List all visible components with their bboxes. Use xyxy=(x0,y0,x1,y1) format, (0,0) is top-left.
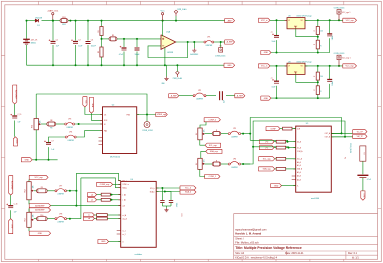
svg-text:SDA_b: SDA_b xyxy=(185,191,191,194)
capacitor input 10uF VCC_mgr xyxy=(274,80,279,82)
jumper JP2 xyxy=(193,95,195,97)
global label SDA_mgr xyxy=(206,149,222,153)
ferrite bead FB3 xyxy=(47,122,56,126)
U4 nc stubs xyxy=(117,231,121,235)
svg-text:CONF_m: CONF_m xyxy=(122,184,129,186)
svg-text:GND: GND xyxy=(227,65,232,67)
power port +BATT xyxy=(52,15,54,21)
svg-text:R9: R9 xyxy=(41,187,43,189)
svg-text:JP7: JP7 xyxy=(59,185,62,187)
ferrite bead conf row JP5 xyxy=(212,132,221,136)
svg-text:PWR_FLAG: PWR_FLAG xyxy=(177,8,187,11)
svg-text:JP2: JP2 xyxy=(198,90,201,92)
tag SCL_vga row xyxy=(259,157,275,161)
nest riser JP8 xyxy=(80,178,82,219)
U4 pin stubs red xyxy=(118,181,158,242)
jumper JP3 xyxy=(65,123,67,125)
wire riser2 branch xyxy=(252,146,254,148)
junction +BATT xyxy=(52,20,54,22)
wire right column down 2 xyxy=(362,178,364,191)
regulator IC LM317 VCC_vga xyxy=(287,18,305,29)
wire regulator output VCC_vga xyxy=(305,19,343,21)
svg-text:Sheet: /: Sheet: / xyxy=(235,237,244,240)
resistor divider top VCC_mgr xyxy=(317,66,319,72)
IC U2 MCP41010 xyxy=(103,107,137,154)
svg-text:A_REF: A_REF xyxy=(237,94,244,97)
svg-text:U3: U3 xyxy=(288,16,290,18)
wire cap C1 stem xyxy=(52,21,54,41)
power flag top xyxy=(175,14,177,17)
svg-text:2^1: 2^1 xyxy=(265,146,268,149)
svg-text:LM317_3PinPackage: LM317_3PinPackage xyxy=(297,61,312,63)
svg-text:RV1: RV1 xyxy=(32,125,34,128)
svg-text:2^0: 2^0 xyxy=(265,140,268,143)
svg-text:a1: a1 xyxy=(91,200,93,202)
wire cap C3 stem xyxy=(87,21,89,41)
wire SDA to U2 pin2 xyxy=(91,113,102,120)
svg-text:100nF: 100nF xyxy=(91,45,97,47)
svg-text:C1: C1 xyxy=(56,39,58,41)
wire input cap stem VCC_mgr xyxy=(276,66,278,81)
tag 2^1 row xyxy=(259,146,274,150)
wire vref rail to U2 area xyxy=(36,94,147,115)
diode D1 1N4148 xyxy=(35,19,38,22)
svg-text:SCL_b: SCL_b xyxy=(150,188,155,190)
wire left column cap xyxy=(14,104,16,115)
capacitor mgr left 1uF xyxy=(8,205,13,207)
global label AGNDREF mid row xyxy=(169,94,179,98)
svg-text:GND: GND xyxy=(363,194,365,199)
junction output cap VCC_mgr xyxy=(329,65,331,67)
svg-text:VCC_vga: VCC_vga xyxy=(346,20,355,22)
svg-text:CONF: CONF xyxy=(270,128,276,130)
wire divider mid VCC_vga xyxy=(317,35,319,41)
capacitor right column 4.7uF xyxy=(357,174,368,176)
svg-text:JUMPER: JUMPER xyxy=(231,137,238,139)
junction top rail battery xyxy=(26,20,28,22)
ground rail VCC_mgr xyxy=(271,97,330,99)
wire output cap stem VCC_vga xyxy=(329,20,331,33)
svg-text:File: Multivu_v03.sch: File: Multivu_v03.sch xyxy=(235,242,259,245)
jumper JP8 xyxy=(55,218,57,220)
svg-text:GND: GND xyxy=(25,160,30,162)
svg-text:CONN_01X02: CONN_01X02 xyxy=(349,143,351,153)
svg-text:VC_TP: VC_TP xyxy=(357,131,364,133)
wire pot2 wiper xyxy=(34,190,37,192)
svg-text:JUMPER: JUMPER xyxy=(66,127,73,129)
svg-text:GND: GND xyxy=(15,139,17,144)
svg-text:SCL: SCL xyxy=(85,100,87,104)
svg-text:VCC_mgr: VCC_mgr xyxy=(345,65,354,68)
svg-text:OUT_B: OUT_B xyxy=(325,137,330,139)
resistor R9 mgr xyxy=(37,189,48,193)
svg-text:+BT_V1: +BT_V1 xyxy=(31,40,38,42)
svg-text:Date: 2015-11-21: Date: 2015-11-21 xyxy=(285,252,304,255)
wire CONF_0 to pot xyxy=(200,122,206,128)
svg-text:VREF_vga: VREF_vga xyxy=(157,114,167,116)
svg-text:P2: P2 xyxy=(343,157,345,159)
wire vin rail VCC_mgr xyxy=(270,65,287,67)
global label GND rail end xyxy=(224,63,235,67)
U4 tag R pairs group2 xyxy=(84,213,95,217)
wire CS to U2 pin1 xyxy=(85,107,103,115)
junction agndref gnd stub xyxy=(193,41,195,43)
svg-text:C2: C2 xyxy=(78,39,80,41)
svg-text:MCP41010: MCP41010 xyxy=(110,156,121,158)
svg-text:10uF: 10uF xyxy=(272,87,276,89)
wire pot3 wiper xyxy=(34,218,37,220)
junction divider tap xyxy=(101,38,103,40)
svg-text:PW0: PW0 xyxy=(127,114,131,116)
svg-text:CONF_mgr: CONF_mgr xyxy=(100,183,110,186)
global label +BATT rail end xyxy=(225,19,235,23)
wire pot2 bottom xyxy=(28,200,30,205)
svg-text:JUMPER: JUMPER xyxy=(196,99,204,101)
svg-text:GND: GND xyxy=(38,233,43,235)
svg-text:KiCad E.D.A. eeschema 4.0.5+d: KiCad E.D.A. eeschema 4.0.5+dfsg1-4 xyxy=(235,256,277,259)
jumper JP4 xyxy=(65,136,67,138)
junction input cap VCC_mgr xyxy=(276,65,278,67)
test point conn VCC_vga xyxy=(338,19,340,21)
capacitor C4 4.7uF xyxy=(122,47,127,49)
wire vin rail VCC_vga xyxy=(270,19,287,21)
U2 pin stubs red xyxy=(100,115,139,131)
svg-text:SCL_b: SCL_b xyxy=(185,188,191,190)
svg-text:1uF: 1uF xyxy=(18,121,21,123)
svg-text:R8: R8 xyxy=(50,120,52,122)
svg-text:VCC: VCC xyxy=(160,10,165,12)
capacitor C5 100nF xyxy=(135,48,140,50)
global label AGNDREF pot3 top xyxy=(29,208,50,212)
svg-text:a0: a0 xyxy=(91,194,93,196)
capacitor left column 1uF xyxy=(12,115,17,117)
svg-text:AGNDREF: AGNDREF xyxy=(35,204,45,207)
junction feedback xyxy=(187,41,189,43)
wire regulator output VCC_mgr xyxy=(305,65,343,67)
vertical global label right bottom xyxy=(361,191,365,200)
svg-text:FB1: FB1 xyxy=(62,17,65,19)
global label VREF_vga xyxy=(156,112,168,116)
tag SDA_vga row xyxy=(259,167,275,171)
svg-text:1uF: 1uF xyxy=(223,100,225,103)
U4 right tags xyxy=(180,186,196,190)
wire after jumper JP5 xyxy=(241,133,251,135)
U2 nc pin stubs xyxy=(99,138,103,145)
svg-text:SDA_vga: SDA_vga xyxy=(263,168,272,171)
global label output VCC_vga xyxy=(343,18,357,22)
wire U5 out B xyxy=(331,136,352,138)
vertical global label GND left column xyxy=(13,137,17,146)
ground symbol U4 caps xyxy=(166,208,168,210)
wire P1 stem xyxy=(220,42,222,48)
wire agndref gnd stub xyxy=(193,42,195,48)
svg-text:C_15: C_15 xyxy=(18,114,22,116)
resistor divider bottom VCC_mgr xyxy=(316,86,319,95)
wire output cap stem VCC_mgr xyxy=(329,66,331,79)
wire divider to gnd VCC_vga xyxy=(317,49,319,53)
wire U2 vout xyxy=(137,114,156,116)
potentiometer RV2 xyxy=(27,182,31,200)
svg-text:VCC_mgr 1: VCC_mgr 1 xyxy=(342,56,351,59)
wire mgr left column 2 xyxy=(10,210,12,219)
battery BT1 18650 xyxy=(23,38,30,40)
potentiometer conf row JP6 xyxy=(198,158,202,169)
test point conn U2 xyxy=(144,122,150,128)
wire pot wiper to FB xyxy=(41,123,47,125)
svg-text:P1: P1 xyxy=(220,46,222,48)
U4 tag R pair row a xyxy=(88,193,97,197)
junction P1 conn xyxy=(220,41,222,43)
wire JP3 to U2 pin3 xyxy=(75,123,103,125)
svg-text:100nF: 100nF xyxy=(134,54,140,56)
svg-text:U1A: U1A xyxy=(166,30,171,33)
IC U5 MAX5306 xyxy=(296,126,332,192)
svg-text:100nF: 100nF xyxy=(175,203,177,208)
global label gnd VCC_mgr xyxy=(261,96,271,100)
svg-text:RV3: RV3 xyxy=(25,218,27,221)
wire conf row1 riser xyxy=(250,118,341,134)
wire FB to JP3 xyxy=(56,123,65,125)
capacitor C6 mid row xyxy=(219,91,221,100)
wire C5 stem xyxy=(136,39,138,47)
ferrite bead conf row JP6 xyxy=(212,162,221,166)
power port VCC xyxy=(162,15,164,21)
svg-text:U3: U3 xyxy=(288,61,290,63)
svg-text:C_16: C_16 xyxy=(14,204,18,206)
ground rail wire xyxy=(27,64,225,66)
svg-text:JP3: JP3 xyxy=(68,119,71,121)
U4 tag R pair row b xyxy=(88,198,97,202)
global label out A xyxy=(353,130,367,134)
wire test point U2 xyxy=(146,115,148,122)
wire divider tap to R5 xyxy=(102,38,110,40)
capacitor output VCC_mgr xyxy=(327,79,332,81)
global label output VCC_mgr xyxy=(343,64,357,68)
svg-text:C21: C21 xyxy=(180,214,182,217)
global label mid row out xyxy=(235,94,245,98)
wire C7 bottom xyxy=(48,147,50,160)
svg-text:JUMPER: JUMPER xyxy=(67,140,74,142)
wire mid row 3 xyxy=(226,95,235,97)
svg-text:VCC_in: VCC_in xyxy=(261,66,268,68)
svg-text:10K: 10K xyxy=(204,130,206,133)
wire conf row JP5 xyxy=(205,133,213,135)
svg-text:Title: Multiple Precision Volt: Title: Multiple Precision Voltage Refere… xyxy=(235,246,302,250)
svg-text:Id: 1/1: Id: 1/1 xyxy=(352,256,359,259)
op-amp U1A LM358 xyxy=(161,35,176,50)
svg-text:JUMPER: JUMPER xyxy=(57,222,64,224)
wire to JP8 xyxy=(47,218,55,220)
svg-text:+BATT_Vin1: +BATT_Vin1 xyxy=(47,9,59,12)
global label VCC_mgr pot top xyxy=(29,175,48,179)
svg-text:nc_2: nc_2 xyxy=(122,234,125,236)
wire U5 out A xyxy=(331,132,352,134)
svg-text:R2: R2 xyxy=(98,51,100,53)
svg-text:RV2: RV2 xyxy=(25,189,27,192)
wire to JP7 xyxy=(47,190,55,192)
global label AGNDREF out xyxy=(225,40,235,44)
svg-text:1uF: 1uF xyxy=(14,212,17,214)
svg-text:GND: GND xyxy=(274,185,279,187)
title block outline xyxy=(234,214,378,260)
vertical global label AGNDREF left column xyxy=(13,85,17,104)
svg-text:CONN_01X01: CONN_01X01 xyxy=(334,53,345,55)
svg-text:CONN-01X01: CONN-01X01 xyxy=(215,55,225,57)
svg-text:+BATT: +BATT xyxy=(227,19,234,22)
junction FB1 out xyxy=(69,20,71,22)
svg-text:JP4: JP4 xyxy=(69,132,72,134)
junction cap C4 xyxy=(123,38,125,40)
wire mid row 1 xyxy=(179,95,193,97)
wire JP8 out xyxy=(67,218,81,220)
jumper JP6 xyxy=(228,163,230,165)
wire JP1 to label xyxy=(214,41,225,43)
svg-text:SCL_mgr: SCL_mgr xyxy=(209,144,217,147)
wire right column down xyxy=(362,161,364,174)
svg-text:240: 240 xyxy=(320,30,323,32)
svg-text:multibus: multibus xyxy=(135,253,142,256)
wire left column to gnd label xyxy=(14,121,16,137)
wire ADJ pin VCC_mgr xyxy=(296,74,318,82)
svg-text:R5: R5 xyxy=(112,35,114,37)
svg-text:18650: 18650 xyxy=(31,43,36,45)
resistor R5 series xyxy=(109,37,117,41)
potentiometer RV1 xyxy=(34,119,38,130)
svg-text:VM_TP: VM_TP xyxy=(357,136,364,138)
capacitor C1 1uF xyxy=(51,41,56,43)
wire opamp output xyxy=(176,41,204,43)
svg-text:1N4148: 1N4148 xyxy=(35,17,43,19)
resistor R conf pin1 xyxy=(283,127,293,130)
resistor R2 xyxy=(100,47,103,57)
junction output cap VCC_vga xyxy=(329,19,331,21)
vertical global label CS vga xyxy=(83,97,87,107)
junction input cap VCC_vga xyxy=(276,19,278,21)
wire conf row JP6 xyxy=(205,163,213,165)
svg-text:CONF_1: CONF_1 xyxy=(209,176,216,178)
svg-text:FB: FB xyxy=(50,127,52,129)
svg-text:A_REF: A_REF xyxy=(227,41,234,44)
vertical global label SDA vga xyxy=(89,97,93,113)
svg-text:JUMPER: JUMPER xyxy=(57,194,64,196)
wire pot RV1 bottom xyxy=(35,130,37,160)
svg-text:VCC_vga 1: VCC_vga 1 xyxy=(342,12,351,14)
wire conf row2 riser xyxy=(243,121,345,164)
wire top rail +BATT xyxy=(27,20,36,22)
wire SCL_mgr to pot C bottom xyxy=(200,140,205,145)
svg-text:LM317_3PinPackage: LM317_3PinPackage xyxy=(297,16,312,18)
wire SDA_mgr to pot D top xyxy=(201,151,206,158)
svg-text:VCC_in: VCC_in xyxy=(261,20,268,22)
svg-text:C3: C3 xyxy=(91,39,93,41)
svg-text:1uF: 1uF xyxy=(51,149,54,151)
svg-text:GND: GND xyxy=(264,98,269,100)
svg-text:GND: GND xyxy=(101,241,106,243)
svg-text:JP8: JP8 xyxy=(59,213,62,215)
wire divider mid VCC_mgr xyxy=(317,80,319,86)
wire input cap stem VCC_vga xyxy=(276,20,278,35)
svg-text:Haroldo L. M. Amaral: Haroldo L. M. Amaral xyxy=(235,232,261,236)
ferrite bead FB1 xyxy=(60,19,68,23)
global label AGNDREF mgr mid xyxy=(29,204,50,208)
global label wide U4 pin1 xyxy=(97,182,113,186)
svg-text:1.00uF: 1.00uF xyxy=(332,35,334,40)
wire C4 stem xyxy=(123,39,125,47)
regulator pin stubs VCC_vga xyxy=(285,20,308,29)
U4 right out wires xyxy=(156,187,180,189)
svg-text:SDA_mgr: SDA_mgr xyxy=(210,150,219,153)
svg-text:CONN_01X01: CONN_01X01 xyxy=(142,130,153,132)
wire ADJ pin VCC_vga xyxy=(296,29,318,37)
tag 2^0 row xyxy=(259,140,274,144)
jumper JP1 xyxy=(204,41,206,43)
svg-text:max5306: max5306 xyxy=(311,198,320,200)
power flag gnd rail xyxy=(176,75,178,78)
wire opamp vcc pin xyxy=(162,21,164,37)
svg-text:CONF_0: CONF_0 xyxy=(209,119,216,121)
svg-text:SCL_s: SCL_s xyxy=(122,180,127,182)
svg-text:CS: CS xyxy=(104,114,106,116)
jumper JP5 xyxy=(228,133,230,135)
capacitor C3 100nF xyxy=(86,42,91,44)
svg-text:P2: P2 xyxy=(363,153,365,155)
U5 pin stubs red xyxy=(293,129,333,186)
test point conn VCC_mgr xyxy=(338,65,340,67)
resistor R1 xyxy=(100,27,103,36)
wire pot2 top xyxy=(28,180,30,182)
wire feedback loop xyxy=(148,42,188,58)
svg-text:10uF: 10uF xyxy=(272,41,276,43)
svg-text:JP6: JP6 xyxy=(233,159,236,161)
capacitor input 10uF VCC_vga xyxy=(274,35,279,37)
global label GND pot3 xyxy=(29,231,50,235)
svg-text:AGNDREF: AGNDREF xyxy=(35,209,45,212)
global label gnd VCC_vga xyxy=(261,50,271,54)
svg-text:egauchoamaral@gmail.com: egauchoamaral@gmail.com xyxy=(235,228,266,231)
wire battery stem xyxy=(26,21,28,39)
global label CONF pin1 xyxy=(266,127,280,131)
nest horizontal lower xyxy=(81,178,121,188)
resistor divider top VCC_vga xyxy=(317,20,319,26)
U5 nc stubs xyxy=(292,176,296,179)
vertical global label GND mgr xyxy=(9,219,13,234)
vertical global label AGNDREF mgr xyxy=(9,176,13,195)
wire U4 pin row agndref xyxy=(51,205,121,207)
svg-text:GND: GND xyxy=(264,52,269,54)
svg-text:4.7uF: 4.7uF xyxy=(367,179,371,181)
wire pot3 bottom xyxy=(28,227,30,231)
capacitor output VCC_vga xyxy=(327,33,332,35)
vertical label right column xyxy=(360,146,366,161)
wire after jumper JP6 xyxy=(241,163,251,165)
ground symbol AGND xyxy=(166,65,168,76)
nest horizontal upper xyxy=(76,173,120,180)
svg-text:SCL_vga: SCL_vga xyxy=(263,159,272,161)
global label GND vga row xyxy=(21,158,32,162)
wire R5 to opamp + xyxy=(117,38,161,40)
potentiometer conf row JP5 xyxy=(198,128,202,140)
gnd row vga xyxy=(32,159,57,161)
regulator IC LM317 VCC_mgr xyxy=(287,63,305,74)
wire opamp vee pin xyxy=(164,48,166,66)
wire riser1 lower extension and branch xyxy=(249,134,251,141)
svg-text:nc_1: nc_1 xyxy=(122,230,125,232)
wire CONF_1 to pot xyxy=(200,169,205,176)
wire mgr left column xyxy=(10,195,12,205)
svg-text:PWR_FLAG: PWR_FLAG xyxy=(173,77,183,80)
global label CONF_1 xyxy=(205,174,220,178)
global label GND U5 xyxy=(271,184,282,188)
